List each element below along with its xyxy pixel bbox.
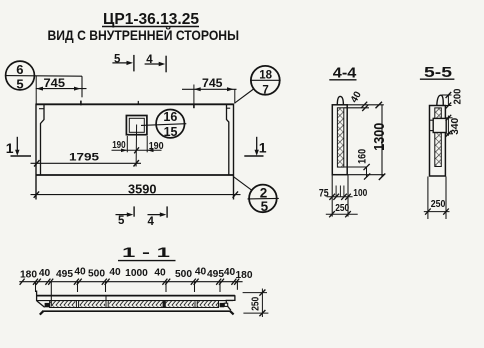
- section mark 1 left: [6, 137, 31, 156]
- section 1-1 anchor left: [45, 303, 50, 307]
- opening square inner: [129, 118, 144, 132]
- leader from circle 6/5 to loop: [6, 76, 82, 98]
- svg-text:500: 500: [88, 269, 105, 280]
- section 4-4 hatched core: [337, 108, 343, 167]
- section mark 5 top: [112, 53, 133, 71]
- marker circle 18/7: [251, 66, 281, 97]
- section 1-1 left end: [37, 291, 45, 315]
- svg-text:40: 40: [224, 267, 236, 278]
- svg-text:6: 6: [16, 62, 23, 77]
- svg-text:7: 7: [262, 84, 268, 96]
- svg-text:100: 100: [353, 187, 367, 199]
- title ЦР1-36.13.25: [102, 11, 199, 28]
- section 4-4 top extension line: [347, 104, 384, 106]
- marker circle 16/15: [141, 110, 186, 139]
- svg-text:495: 495: [207, 269, 224, 280]
- section 1-1 band dividers: [75, 295, 197, 307]
- svg-text:180: 180: [20, 270, 37, 281]
- svg-text:5: 5: [114, 53, 121, 65]
- section 5-5 hatched core: [435, 108, 442, 167]
- svg-text:40: 40: [195, 267, 207, 278]
- section 4-4 bottom left extension: [331, 175, 333, 217]
- opening centre line: [135, 125, 138, 167]
- dimension chain ticks (1-1): [20, 279, 240, 285]
- svg-text:75: 75: [319, 188, 329, 200]
- section 4-4 lifting loop: [337, 96, 343, 105]
- section 4-4 bottom extension line: [347, 174, 384, 176]
- section 1-1 right end: [224, 295, 235, 314]
- dimension 3590: [31, 183, 241, 198]
- dimension 200 (5-5): [442, 88, 464, 108]
- dimension chain line (1-1): [19, 281, 242, 283]
- dimension 250 (5-5): [424, 198, 450, 215]
- lifting loop tick right on panel: [193, 104, 195, 108]
- section 5-5 column outline: [430, 106, 446, 177]
- section 5-5 embedded plate: [430, 118, 446, 132]
- section 4-4 column outline: [332, 105, 347, 175]
- leader to circle 18/7: [235, 89, 254, 103]
- dimension 745 right: [182, 78, 237, 104]
- svg-text:190: 190: [112, 139, 126, 151]
- section mark 1 right: [244, 137, 266, 156]
- section 4-4 hatch-bottom extension: [344, 166, 367, 168]
- svg-text:18: 18: [259, 69, 272, 81]
- dimension 1795: [31, 151, 142, 166]
- panel left edge: [35, 104, 37, 200]
- section mark 5 bottom: [116, 206, 135, 227]
- section 5-5 lifting loop: [437, 95, 443, 105]
- svg-text:5: 5: [261, 199, 269, 214]
- marker circle 6/5: [6, 61, 35, 92]
- section 4-4 rib extensions: [336, 186, 344, 197]
- section 1-1 top slab line: [37, 295, 235, 297]
- svg-text:40: 40: [349, 89, 364, 105]
- svg-text:40: 40: [74, 267, 86, 278]
- svg-text:250: 250: [431, 198, 446, 210]
- svg-text:200: 200: [452, 88, 463, 104]
- dimension chain extensions (1-1): [36, 282, 238, 307]
- subtitle ВИД С ВНУТРЕННЕЙ СТОРОНЫ: [48, 26, 240, 43]
- svg-text:5: 5: [16, 77, 23, 92]
- svg-text:1: 1: [259, 139, 267, 155]
- svg-text:40: 40: [109, 267, 121, 278]
- section 1-1 band top line: [37, 300, 233, 302]
- svg-text:500: 500: [175, 269, 192, 280]
- panel left end inner profile: [39, 105, 44, 176]
- svg-text:40: 40: [39, 268, 51, 279]
- dimension 160 (4-4): [357, 149, 371, 180]
- panel right edge: [233, 104, 235, 200]
- dimension 75 / 100 (4-4): [319, 187, 368, 200]
- dimension 1300 (4-4): [372, 102, 388, 180]
- svg-text:1795: 1795: [69, 151, 99, 163]
- svg-text:1 - 1: 1 - 1: [122, 244, 170, 260]
- svg-text:15: 15: [164, 125, 178, 139]
- svg-text:ВИД С ВНУТРЕННЕЙ СТОРОНЫ: ВИД С ВНУТРЕННЕЙ СТОРОНЫ: [48, 26, 240, 43]
- lifting loop tick left on panel: [80, 101, 82, 106]
- svg-text:4-4: 4-4: [333, 66, 357, 82]
- opening square outer: [126, 116, 146, 135]
- marker circle 2/5: [248, 185, 279, 214]
- title 4-4: [329, 66, 356, 82]
- dimension 250 (1-1): [243, 289, 269, 318]
- svg-text:1: 1: [6, 140, 14, 156]
- panel bottom edge: [36, 174, 234, 176]
- svg-text:1000: 1000: [125, 268, 148, 279]
- svg-text:16: 16: [163, 110, 177, 124]
- dimension 250 (4-4): [326, 202, 358, 217]
- svg-text:4: 4: [148, 216, 155, 228]
- svg-text:160: 160: [357, 149, 369, 164]
- panel centre tick on top edge: [137, 101, 139, 104]
- leader to circle 2/5: [233, 176, 251, 190]
- svg-text:5-5: 5-5: [424, 65, 452, 81]
- section 4-4 hatch-top extension: [344, 107, 369, 109]
- section 5-5 bottom extensions: [428, 177, 446, 220]
- svg-text:ЦР1-36.13.25: ЦР1-36.13.25: [103, 11, 199, 28]
- panel right end inner profile: [227, 105, 231, 176]
- panel top edge: [36, 103, 234, 105]
- svg-text:745: 745: [202, 78, 223, 90]
- section mark 4 top: [145, 54, 167, 72]
- svg-text:40: 40: [154, 268, 166, 279]
- svg-text:1300: 1300: [372, 123, 388, 151]
- title 1 - 1: [118, 244, 176, 261]
- dimension 190 left: [112, 136, 162, 153]
- dimension 40 (4-4): [349, 89, 368, 111]
- section 1-1 anchor right: [220, 303, 225, 307]
- dimension chain labels (1-1): [20, 267, 253, 281]
- svg-text:340: 340: [450, 117, 461, 134]
- svg-text:250: 250: [249, 297, 261, 311]
- section 4-4 bottom right extension: [347, 175, 349, 217]
- dimension 340 (5-5): [446, 115, 462, 137]
- dimension 745 left: [36, 76, 87, 104]
- svg-text:250: 250: [335, 202, 349, 214]
- svg-text:495: 495: [56, 269, 73, 280]
- section mark 4 bottom: [148, 206, 168, 228]
- dimension 190 right: [147, 136, 164, 152]
- svg-text:5: 5: [118, 215, 125, 227]
- title 5-5: [420, 65, 455, 81]
- section 1-1 hatched band: [50, 301, 219, 308]
- section 1-1 bottom line: [43, 310, 231, 312]
